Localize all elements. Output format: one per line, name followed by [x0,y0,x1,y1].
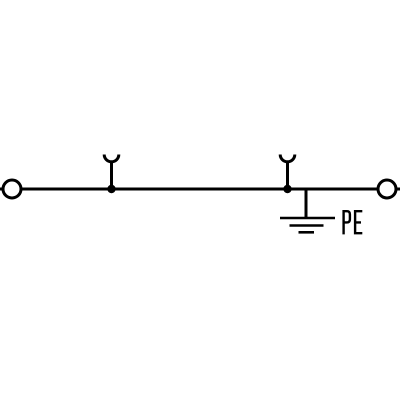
clamp tap arc 2 [280,155,295,162]
terminal circle left [3,180,21,198]
label PE [344,211,363,234]
terminal circle right [378,180,396,198]
wire stem of tap 2 [286,162,289,189]
wire ground drop [305,189,308,219]
wire main horizontal conductor [0,188,400,191]
node junction dot 2 [283,185,291,193]
node junction dot 1 [107,185,115,193]
clamp tap arc 1 [104,155,119,162]
ground earth symbol [280,218,335,232]
wire stem of tap 1 [110,162,113,189]
